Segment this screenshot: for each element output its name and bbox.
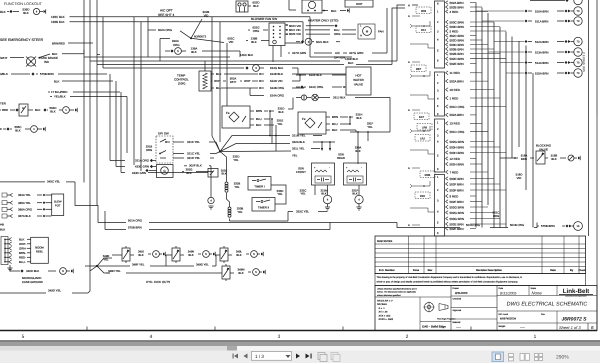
ssr ground circle 4 right <box>355 195 363 203</box>
svg-text:500D BRN: 500D BRN <box>450 43 464 47</box>
svg-text:BLU: BLU <box>256 117 262 121</box>
boom reel box <box>31 237 49 263</box>
svg-text:A/C OPT: A/C OPT <box>160 9 173 13</box>
svg-text:BLK: BLK <box>0 228 5 232</box>
svg-text:502B BRN: 502B BRN <box>450 52 464 56</box>
svg-text:YEL: YEL <box>300 192 306 196</box>
hyd valve 3 <box>220 248 228 261</box>
svg-text:BLU: BLU <box>332 122 338 126</box>
svg-text:820A: 820A <box>172 39 179 43</box>
svg-text:Drawn: Drawn <box>453 287 460 290</box>
svg-text:136B BLK: 136B BLK <box>51 20 65 24</box>
svg-text:501B ORG: 501B ORG <box>510 223 525 227</box>
svg-text:503H BRN: 503H BRN <box>450 151 464 155</box>
svg-text:501D ORG: 501D ORG <box>450 130 466 134</box>
wire 331J BLK with symbols <box>301 95 306 100</box>
relay small 302G <box>208 169 218 178</box>
svg-text:503F BRN: 503F BRN <box>450 188 464 192</box>
svg-text:YEL: YEL <box>103 257 109 261</box>
svg-text:500B BRN: 500B BRN <box>450 47 464 51</box>
svg-text:427H GRN: 427H GRN <box>292 51 306 55</box>
svg-text:TER: TER <box>0 102 6 106</box>
fan out node <box>219 150 221 152</box>
svg-text:WHT: WHT <box>230 80 237 84</box>
svg-text:502A BRN: 502A BRN <box>450 1 464 5</box>
svg-text:BLK: BLK <box>0 10 6 14</box>
svg-text:502E BRN: 502E BRN <box>450 62 464 66</box>
svg-text:Fe: Fe <box>302 117 306 121</box>
svg-text:502D BRN: 502D BRN <box>450 38 464 42</box>
svg-text:YEL: YEL <box>234 185 240 189</box>
svg-text:BLK: BLK <box>191 50 197 54</box>
svg-text:331D YEL: 331D YEL <box>187 156 201 160</box>
drawing bottom border <box>0 330 597 332</box>
svg-text:BLK: BLK <box>551 157 556 161</box>
svg-text:Unless otherwise specified dim: Unless otherwise specified dimensions ar… <box>377 287 417 290</box>
svg-text:503H BRN: 503H BRN <box>450 145 464 149</box>
wire 511A BRN <box>482 20 524 22</box>
svg-text:BLU: BLU <box>216 86 222 90</box>
svg-text:A: A <box>408 167 410 170</box>
connector pin box segments <box>435 1 445 68</box>
svg-text:A: A <box>408 224 410 227</box>
slew pot connector pins <box>2 193 7 197</box>
svg-text:349G YEL: 349G YEL <box>196 262 209 266</box>
svg-text:E.O. Number: E.O. Number <box>379 269 395 272</box>
svg-text:BLK: BLK <box>221 173 226 176</box>
nav last page button <box>306 354 310 359</box>
disclaimer text block <box>375 274 586 286</box>
wire bus verticals right <box>475 3 477 228</box>
heater fan wires BLU ORG <box>334 24 337 27</box>
svg-text:SLEW: SLEW <box>54 201 62 204</box>
SSR FRONT box <box>312 163 335 185</box>
svg-text:HB: HB <box>0 223 4 227</box>
svg-text:ORG: ORG <box>493 214 499 218</box>
right border line <box>596 0 598 115</box>
wire 512A BRN <box>494 41 524 43</box>
svg-text:346D BLK: 346D BLK <box>26 269 39 273</box>
svg-text:12 RED: 12 RED <box>450 157 461 161</box>
svg-text:DECIMAL: DECIMAL <box>377 303 388 306</box>
boom reel connector pins <box>5 238 9 240</box>
hyd valve 4 <box>222 266 230 279</box>
svg-text:331L YEL: 331L YEL <box>292 147 305 151</box>
svg-text:WATER: WATER <box>353 78 364 82</box>
svg-text:Fe: Fe <box>226 111 230 115</box>
svg-text:SEE SHT 4: SEE SHT 4 <box>158 13 174 17</box>
history fwd icon <box>331 353 338 360</box>
svg-text:0/BLK: 0/BLK <box>0 72 8 76</box>
svg-text:502G BRN: 502G BRN <box>450 211 465 215</box>
svg-text:DPI SW: DPI SW <box>158 132 169 136</box>
svg-text:BLK: BLK <box>236 253 241 257</box>
wire 349K BLK circle 5 <box>180 254 184 256</box>
svg-text:E: E <box>591 326 594 330</box>
microguard case ground <box>7 267 12 269</box>
svg-text:A: A <box>408 15 410 18</box>
svg-text:ORG: ORG <box>146 148 152 152</box>
svg-text:Check: Check <box>578 269 586 272</box>
wire 136A BLK circle 5 <box>165 50 170 52</box>
svg-text:RED-: RED- <box>19 256 26 260</box>
svg-text:624F BLK: 624F BLK <box>309 73 322 77</box>
svg-text:BLK: BLK <box>50 109 56 113</box>
svg-text:BLK: BLK <box>54 79 60 83</box>
svg-text:BRN: BRN <box>332 115 338 119</box>
svg-text:K: K <box>0 127 2 131</box>
wire 349J BLK circle 5 <box>130 254 134 256</box>
svg-text:SEE EMERGENCY STEER: SEE EMERGENCY STEER <box>0 38 44 42</box>
svg-text:BRN: BRN <box>521 157 527 161</box>
svg-text:HYD. KICK OUTS: HYD. KICK OUTS <box>146 280 170 284</box>
layout continuous icon <box>509 354 514 357</box>
connector box 602D <box>236 1 248 12</box>
blower heater wires 602H 602J 602K <box>286 24 288 26</box>
svg-text:321M YEL: 321M YEL <box>292 134 306 138</box>
wire 331D YEL <box>173 157 184 159</box>
hyd valve 1 <box>112 254 122 256</box>
svg-text:ORG: ORG <box>253 29 260 33</box>
svg-text:5 RED: 5 RED <box>450 29 460 33</box>
svg-text:BLK: BLK <box>35 108 41 112</box>
svg-text:RED: RED <box>2 108 8 112</box>
coil symbol 1 <box>225 182 228 185</box>
svg-text:VID: VID <box>229 40 234 44</box>
svg-text:502G BRN: 502G BRN <box>450 205 465 209</box>
svg-text:348H YEL: 348H YEL <box>108 269 121 273</box>
third angle projection symbol <box>424 302 433 311</box>
wire 510A BRN <box>476 10 524 12</box>
svg-text:BLK: BLK <box>238 271 243 275</box>
svg-text:502H BRN: 502H BRN <box>450 162 464 166</box>
svg-text:A: A <box>408 109 410 112</box>
relay box top with circle <box>302 0 322 13</box>
svg-text:385A YEL: 385A YEL <box>18 201 31 205</box>
vertical feeds from above <box>211 17 213 136</box>
wire 349M BLK circle 5 <box>230 272 234 274</box>
svg-text:This drawing is the property o: This drawing is the property of Link-Bel… <box>377 276 523 279</box>
page number field <box>252 352 292 361</box>
svg-text:384A YEL: 384A YEL <box>18 193 31 197</box>
svg-text:YEL: YEL <box>277 192 283 196</box>
connector dashed plug labels <box>416 7 431 14</box>
svg-text:602A ORG: 602A ORG <box>158 28 173 32</box>
svg-text:BLK: BLK <box>356 116 361 120</box>
svg-text:unless otherwise specified.: unless otherwise specified. <box>377 294 401 297</box>
svg-text:YEL: YEL <box>367 125 373 129</box>
svg-text:HEATER ONLY (STD): HEATER ONLY (STD) <box>308 19 338 23</box>
svg-text:A: A <box>408 4 410 8</box>
svg-text:321A ORG: 321A ORG <box>135 159 150 163</box>
svg-text:inches. The tolerances below: inches. The tolerances below are applica… <box>377 291 417 294</box>
svg-text:BLK: BLK <box>332 128 338 132</box>
G generator box <box>157 165 174 178</box>
svg-text:BLK: BLK <box>348 61 354 65</box>
fan motor <box>358 24 375 39</box>
svg-text:EAT: EAT <box>419 116 424 119</box>
svg-text:BLK: BLK <box>278 110 283 114</box>
svg-text:BRN-: BRN- <box>19 251 26 255</box>
svg-text:4: 4 <box>150 334 153 340</box>
svg-text:RBT: RBT <box>416 68 422 71</box>
svg-text:HOT: HOT <box>355 74 362 78</box>
svg-text:M99740Z004: M99740Z004 <box>500 318 516 321</box>
svg-text:FRONT: FRONT <box>296 170 306 174</box>
svg-text:BLOWER FAN SW: BLOWER FAN SW <box>251 17 277 21</box>
svg-text:BLK: BLK <box>256 123 262 127</box>
wire 136B BLK vertical drop <box>302 22 304 43</box>
partial row top right <box>530 0 565 2</box>
svg-text:YEL: YEL <box>237 210 243 214</box>
page bottom edge <box>0 340 600 342</box>
blower box bottom stubs <box>272 46 274 63</box>
SSR REAR box <box>344 163 367 185</box>
nav prev page button <box>244 354 248 359</box>
svg-text:BLK: BLK <box>216 72 222 76</box>
svg-text:136C BLK: 136C BLK <box>51 15 65 19</box>
timer box 1 <box>248 177 271 191</box>
svg-text:Zone: Zone <box>413 269 420 272</box>
svg-text:382C BRN: 382C BRN <box>450 34 464 38</box>
toolbar divider band <box>0 342 600 347</box>
svg-text:VID: VID <box>517 176 522 180</box>
svg-text:387A BLK: 387A BLK <box>18 214 31 218</box>
svg-text:3: 3 <box>278 334 281 340</box>
sender1 wire BLK <box>250 124 254 126</box>
svg-text:624B ORG: 624B ORG <box>270 86 285 90</box>
wire 136C BLK vertical drop <box>309 17 311 57</box>
svg-text:Date: Date <box>550 269 556 272</box>
svg-text:8/31/2005: 8/31/2005 <box>500 291 517 295</box>
svg-text:348F YEL: 348F YEL <box>132 262 145 266</box>
svg-text:LRB: LRB <box>422 127 427 130</box>
svg-text:N: N <box>22 107 24 110</box>
svg-text:J6R0072 S: J6R0072 S <box>561 316 587 322</box>
svg-text:386A ORG: 386A ORG <box>18 208 33 212</box>
svg-text:REAR: REAR <box>337 156 345 160</box>
svg-text:------: ------ <box>456 326 461 329</box>
svg-text:RFB: RFB <box>421 10 427 13</box>
wire 433D GRN to relay <box>148 172 208 174</box>
svg-text:BLK: BLK <box>355 149 360 153</box>
svg-text:502A BRN: 502A BRN <box>450 113 464 117</box>
svg-text:602K VID: 602K VID <box>289 32 301 36</box>
ssr ground circle 4 left <box>323 195 331 203</box>
svg-text:.XXX ± .003: .XXX ± .003 <box>378 314 391 317</box>
svg-text:10 RED: 10 RED <box>450 88 461 92</box>
svg-text:332A BLK: 332A BLK <box>292 140 305 144</box>
svg-text:349D YEL: 349D YEL <box>48 289 62 293</box>
sender2 wire BLU <box>326 123 330 125</box>
svg-text:500D BRN: 500D BRN <box>450 25 464 29</box>
svg-text:333C YEL: 333C YEL <box>296 209 310 213</box>
svg-text:BLU-: BLU- <box>19 260 26 264</box>
wire stubs label rows to bus <box>470 2 476 4</box>
svg-text:VALVE: VALVE <box>354 83 363 87</box>
wire stubs to 321A 433C 433D labels <box>110 160 125 162</box>
svg-text:H: H <box>360 35 362 38</box>
svg-text:CAD - Solid Edge: CAD - Solid Edge <box>422 325 446 329</box>
svg-text:502F BRN: 502F BRN <box>450 200 464 204</box>
svg-text:501A ORG: 501A ORG <box>128 218 143 222</box>
svg-text:.X ± .1: .X ± .1 <box>378 307 385 310</box>
svg-text:331K YEL: 331K YEL <box>187 140 200 144</box>
svg-text:2: 2 <box>406 334 409 340</box>
layout continuous facing icon <box>535 354 539 357</box>
svg-text:331J BLK: 331J BLK <box>333 96 346 100</box>
title block outline <box>375 286 597 331</box>
svg-text:Rev: Rev <box>428 269 433 272</box>
svg-text:512A BRN: 512A BRN <box>535 40 549 44</box>
wire 331K YEL <box>173 141 184 143</box>
svg-text:ORG: ORG <box>173 43 180 47</box>
svg-text:R: R <box>30 61 32 64</box>
svg-text:ISO Level: ISO Level <box>499 313 509 316</box>
svg-text:514A BRN: 514A BRN <box>535 61 549 65</box>
svg-text:624A ORG: 624A ORG <box>270 94 285 98</box>
zone tick marks <box>86 327 88 331</box>
svg-text:FAN: FAN <box>378 29 384 33</box>
timer box 2 <box>252 198 275 212</box>
svg-text:433D GRN: 433D GRN <box>132 171 146 175</box>
svg-text:WHT-: WHT- <box>19 242 26 246</box>
coil symbol 2 <box>228 207 231 210</box>
nav next page button <box>296 354 300 359</box>
svg-text:Material: Material <box>453 321 461 324</box>
wire 321M YEL row <box>269 135 271 137</box>
svg-text:(10K): (10K) <box>178 82 185 86</box>
sender1 wire BLU 331E YEL <box>250 118 254 120</box>
wire 321C YEL <box>173 153 184 155</box>
wire 515A BRN <box>506 72 524 74</box>
svg-text:1: 1 <box>534 334 537 340</box>
hyd valve 2 <box>172 248 180 261</box>
svg-text:IND: IND <box>44 60 50 64</box>
svg-text:11 RED: 11 RED <box>450 71 461 75</box>
svg-text:/WHT: /WHT <box>0 56 8 60</box>
svg-text:515A BRN: 515A BRN <box>535 71 549 75</box>
svg-text:8/31/2005: 8/31/2005 <box>455 291 468 295</box>
svg-text:BLK: BLK <box>23 11 29 15</box>
inner border line right <box>588 0 590 236</box>
svg-text:502A BRN: 502A BRN <box>450 79 464 83</box>
svg-text:Weight: Weight <box>499 325 506 328</box>
wire 349L BLK circle 5 <box>228 254 232 256</box>
svg-text:DWG ELECTRICAL SCHEMATIC: DWG ELECTRICAL SCHEMATIC <box>507 302 588 308</box>
fuel sender box 2 <box>298 112 326 134</box>
svg-text:501D ORG: 501D ORG <box>450 105 466 109</box>
svg-text:136C BLK: 136C BLK <box>240 53 253 57</box>
hot water valve box <box>346 67 371 95</box>
svg-text:CASE GROUND: CASE GROUND <box>22 280 43 284</box>
svg-text:whole or part, of design and d: whole or part, of design and details con… <box>377 280 519 283</box>
svg-text:BLK: BLK <box>188 253 193 257</box>
svg-text:BLK: BLK <box>15 128 21 132</box>
svg-text:BLK: BLK <box>138 253 143 257</box>
svg-text:8 RED: 8 RED <box>450 194 460 198</box>
svg-text:------: ------ <box>520 327 525 330</box>
svg-text:500C BRN: 500C BRN <box>450 20 464 24</box>
layout facing icon <box>520 354 524 361</box>
svg-text:BRN/RED: BRN/RED <box>52 41 65 45</box>
svg-text:YEL: YEL <box>233 158 239 162</box>
svg-text:RRJ: RRJ <box>420 195 426 198</box>
svg-text:433C GRN: 433C GRN <box>135 165 149 169</box>
fuel sender box 1 <box>222 106 250 128</box>
svg-text:FUNCTION LOCKOUT: FUNCTION LOCKOUT <box>4 2 43 6</box>
svg-text:624C ORG: 624C ORG <box>309 85 324 89</box>
history back icon <box>318 353 325 360</box>
svg-text:513A BRN: 513A BRN <box>535 50 549 54</box>
svg-text:POT: POT <box>55 204 61 207</box>
svg-text:M99740Z004: M99740Z004 <box>377 240 393 243</box>
svg-text:427G GRN: 427G GRN <box>349 51 363 55</box>
svg-text:502E BRN: 502E BRN <box>450 222 464 226</box>
svg-text:602L BLK: 602L BLK <box>316 40 329 44</box>
sender1 wire BRN 331D BLK <box>250 110 254 112</box>
svg-text:575B BRN: 575B BRN <box>40 72 54 76</box>
svg-text:575B BRN: 575B BRN <box>128 225 142 229</box>
svg-text:Revision Description: Revision Description <box>476 269 502 272</box>
sender2 vertical drops <box>349 117 351 124</box>
svg-text:WHT: WHT <box>244 79 251 83</box>
svg-text:BLK: BLK <box>251 40 257 44</box>
svg-text:Checked: Checked <box>453 298 462 301</box>
svg-text:.XX ± .06: .XX ± .06 <box>378 311 388 314</box>
svg-text:5: 5 <box>22 334 25 340</box>
svg-text:None: None <box>532 291 543 296</box>
svg-text:YEL: YEL <box>277 122 283 126</box>
svg-text:511A BRN: 511A BRN <box>535 19 548 23</box>
toolbar background <box>0 346 600 363</box>
svg-text:Sheet 1 of 3: Sheet 1 of 3 <box>559 325 581 330</box>
svg-text:REEL: REEL <box>36 249 44 253</box>
svg-text:510A BRN: 510A BRN <box>535 9 549 13</box>
wire 136E BLK long line upper <box>90 60 340 62</box>
svg-text:-: - <box>329 166 330 170</box>
svg-text:624E BLK: 624E BLK <box>270 72 283 76</box>
svg-text:BLK: BLK <box>19 238 25 242</box>
svg-text:-: - <box>361 166 362 170</box>
svg-text:BLK: BLK <box>352 192 357 196</box>
sender2 wire BRN 331H BLK <box>326 116 330 118</box>
circle 4 ground small <box>208 197 214 203</box>
svg-text:624D VID: 624D VID <box>270 79 283 83</box>
svg-text:N3R0072: N3R0072 <box>194 34 207 38</box>
wire 624G BLK circle 3 <box>103 67 244 69</box>
svg-text:LT BLU/RED: LT BLU/RED <box>51 90 67 94</box>
svg-text:A: A <box>408 61 410 64</box>
svg-text:7 RED: 7 RED <box>450 170 460 174</box>
wire 624F BLK <box>299 74 301 76</box>
svg-text:Approval: Approval <box>453 309 462 312</box>
svg-text:VID: VID <box>204 14 209 18</box>
nav first page button <box>234 354 238 359</box>
svg-text:13 RED: 13 RED <box>450 122 461 126</box>
svg-text:503G BRN: 503G BRN <box>450 217 465 221</box>
svg-text:575B BRN: 575B BRN <box>541 224 555 228</box>
svg-text:RFJ: RFJ <box>421 29 427 32</box>
svg-text:YEL/BLK: YEL/BLK <box>54 95 66 99</box>
wire BLK long line lower <box>97 64 344 66</box>
svg-text:ANGULAR ± 1°: ANGULAR ± 1° <box>377 300 393 303</box>
svg-text:624G BLK: 624G BLK <box>270 66 283 70</box>
CAD solid edge cell <box>420 321 451 323</box>
svg-text:TIMER II: TIMER II <box>258 206 270 210</box>
svg-text:SEE SHEET 2: SEE SHEET 2 <box>582 52 586 72</box>
wire bus verticals left <box>83 0 85 183</box>
